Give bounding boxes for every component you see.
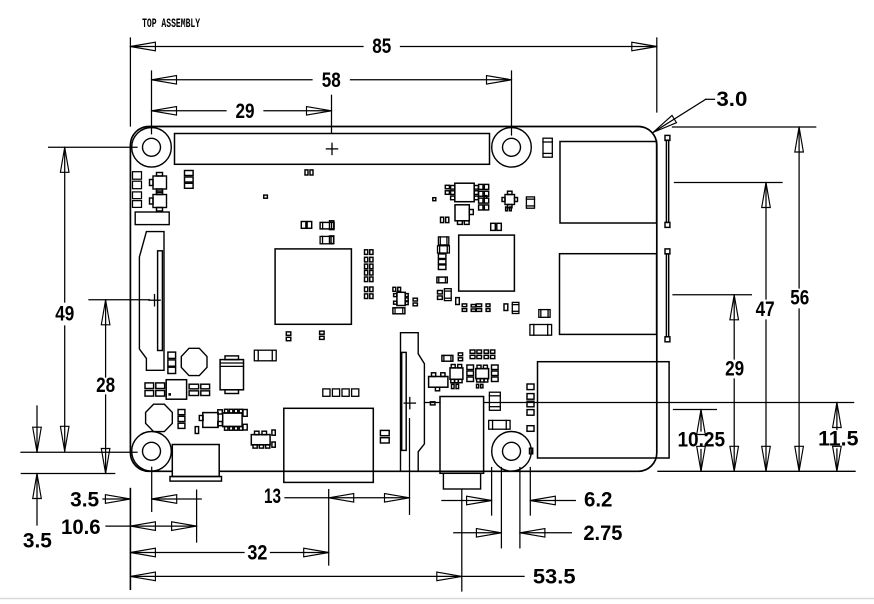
- svg-text:47: 47: [756, 298, 775, 321]
- svg-text:3.0: 3.0: [716, 88, 747, 111]
- svg-text:11.5: 11.5: [818, 427, 859, 450]
- svg-text:28: 28: [96, 374, 115, 397]
- svg-text:56: 56: [790, 287, 809, 310]
- svg-text:6.2: 6.2: [584, 489, 613, 512]
- svg-text:2.75: 2.75: [583, 522, 622, 545]
- svg-text:29: 29: [725, 358, 744, 381]
- svg-text:58: 58: [322, 69, 341, 92]
- svg-text:32: 32: [247, 541, 267, 564]
- svg-text:49: 49: [55, 303, 74, 326]
- svg-text:13: 13: [264, 485, 281, 508]
- svg-text:10.6: 10.6: [61, 516, 101, 539]
- svg-text:29: 29: [236, 100, 255, 123]
- svg-text:53.5: 53.5: [533, 566, 576, 589]
- svg-text:10.25: 10.25: [677, 429, 725, 452]
- svg-text:TOP ASSEMBLY: TOP ASSEMBLY: [142, 16, 200, 31]
- svg-text:3.5: 3.5: [70, 489, 99, 512]
- svg-text:3.5: 3.5: [23, 530, 52, 553]
- svg-text:85: 85: [372, 35, 391, 58]
